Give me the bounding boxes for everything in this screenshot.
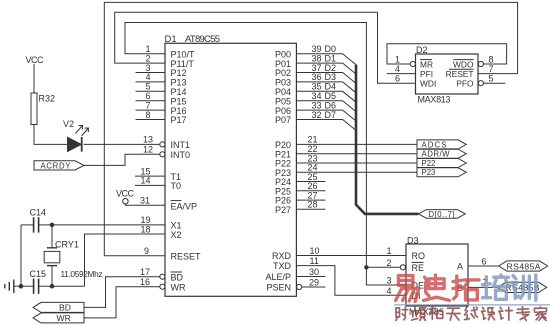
D1 left pin numbers	[140, 44, 153, 287]
junction node X2 leg	[50, 284, 55, 289]
svg-text:EA/VP: EA/VP	[171, 201, 198, 211]
svg-text:14: 14	[140, 176, 150, 186]
junction RE/DE node	[364, 265, 368, 269]
svg-text:6: 6	[395, 74, 400, 84]
svg-text:WR: WR	[171, 282, 186, 292]
wire TXD to DI	[296, 266, 406, 296]
wire net RE/DE (P1.0 to MAX485)	[125, 23, 406, 286]
watermark char pin (dark red)	[412, 307, 426, 320]
watchdog D2 MAX813 body	[416, 54, 479, 94]
svg-text:RESET: RESET	[446, 69, 474, 79]
svg-text:18: 18	[140, 224, 150, 234]
svg-text:RE: RE	[412, 263, 425, 273]
svg-text:ADR/W: ADR/W	[422, 150, 451, 159]
P2 port wires pins 21-24	[296, 144, 417, 172]
P0 data bus wires D0-D7	[296, 54, 356, 131]
svg-text:X2: X2	[171, 230, 182, 240]
D2 pin numbers	[395, 54, 494, 83]
svg-text:D1: D1	[165, 34, 177, 45]
wire net RESET (MAX813 pin7 to AT89C55 pin9)	[104, 2, 517, 255]
svg-text:D2: D2	[416, 45, 428, 55]
watermark char di (red)	[424, 275, 450, 300]
bus D[0..7] thick line	[356, 65, 419, 214]
D1 left pin names	[171, 49, 202, 292]
wire net WDI (P1.1 to MAX813 pin6)	[115, 12, 416, 83]
resistor R32	[31, 93, 37, 125]
svg-text:17: 17	[140, 267, 150, 277]
svg-text:P07: P07	[275, 115, 291, 125]
overline WDO	[454, 59, 474, 61]
transceiver D3 MAX485 body	[406, 244, 468, 306]
svg-text:D7: D7	[325, 110, 337, 120]
svg-text:CRY1: CRY1	[55, 239, 79, 249]
net labels D0-D7	[325, 44, 337, 120]
watermark char yi (red)	[396, 276, 419, 302]
flag ADR/W	[417, 149, 466, 158]
D1 left pin stubs	[135, 73, 165, 186]
watermark char xian (dark red)	[465, 307, 478, 320]
svg-text:P17: P17	[171, 115, 187, 125]
svg-text:11.0592Mhz: 11.0592Mhz	[61, 269, 103, 279]
flag ADCS	[417, 140, 466, 149]
svg-text:T0: T0	[171, 181, 182, 191]
svg-text:29: 29	[309, 278, 319, 288]
flag RS485B	[498, 282, 547, 292]
VCC port circle	[123, 199, 128, 204]
LED V2 emission arrows	[76, 126, 89, 137]
svg-text:11: 11	[310, 256, 319, 266]
svg-text:PFO: PFO	[456, 79, 474, 89]
svg-text:V2: V2	[63, 119, 74, 129]
svg-text:MAX813: MAX813	[418, 95, 451, 105]
crystal CRY1	[44, 225, 60, 286]
watermark char pei (blue)	[483, 275, 510, 299]
LED V2 diode	[68, 137, 82, 152]
wire crystal bottom to X2 riser	[52, 285, 85, 287]
svg-text:RS485A: RS485A	[507, 261, 541, 271]
svg-text:WDO: WDO	[453, 59, 474, 69]
svg-text:INT0: INT0	[171, 150, 191, 160]
D3 right pin numbers	[482, 256, 488, 287]
svg-text:RESET: RESET	[171, 251, 202, 261]
wire VCC to EA/VP pin31	[125, 204, 165, 205]
D1 right pin numbers 39-32	[312, 44, 322, 120]
D1/D3 pin numbers bottom	[309, 246, 392, 296]
svg-text:BD: BD	[59, 303, 71, 313]
svg-text:RO: RO	[412, 251, 426, 261]
svg-text:R32: R32	[39, 94, 56, 104]
svg-text:ACRDY: ACRDY	[41, 161, 72, 170]
svg-text:WDI: WDI	[420, 79, 436, 89]
svg-text:7: 7	[489, 64, 494, 74]
svg-text:30: 30	[309, 267, 319, 277]
pin stub ALE/P pin30	[296, 276, 325, 278]
wire BD pin17 to flag	[84, 277, 160, 308]
svg-text:1: 1	[395, 54, 400, 64]
junction node ground leg	[19, 284, 24, 289]
watermark char tuo (red)	[453, 276, 479, 300]
watermark underline	[394, 304, 550, 306]
flag WR	[33, 313, 84, 323]
watermark char she (dark red)	[396, 307, 408, 320]
pin stub RESET pin7 (to net)	[478, 73, 518, 75]
svg-text:3: 3	[387, 276, 392, 286]
svg-text:MR: MR	[420, 59, 433, 69]
svg-text:PSEN: PSEN	[266, 283, 291, 293]
D3 pin names	[412, 251, 464, 301]
svg-text:1: 1	[387, 246, 392, 256]
wire INT0 to ACRDY	[84, 154, 160, 165]
watermark char xun (blue)	[512, 275, 536, 300]
wire A to RS485A flag	[468, 265, 499, 267]
ground	[5, 280, 21, 294]
wire R32 to LED	[34, 125, 68, 145]
svg-text:8: 8	[489, 54, 494, 64]
svg-text:PFI: PFI	[420, 69, 433, 79]
capacitor C15	[21, 279, 52, 294]
svg-text:10: 10	[310, 246, 320, 256]
flag P23	[417, 168, 466, 177]
svg-text:P27: P27	[275, 205, 291, 215]
P2 port stubs pins 25-28	[296, 182, 325, 210]
flag RS485A	[499, 261, 548, 271]
D1 right pin numbers 21-28	[308, 135, 318, 210]
flag P22	[417, 159, 466, 168]
svg-text:AT89C55: AT89C55	[185, 34, 220, 45]
svg-text:C14: C14	[30, 208, 47, 218]
wire VCC to R32	[33, 64, 35, 93]
pin circles on D1 (13,12,17,16,29)	[160, 142, 302, 290]
svg-text:C15: C15	[30, 269, 47, 279]
pin bubble MR	[410, 61, 415, 66]
svg-text:INT1: INT1	[171, 140, 191, 150]
watermark char she2 (dark red)	[482, 307, 495, 319]
svg-text:TXD: TXD	[273, 261, 292, 271]
flag BD	[33, 302, 84, 312]
svg-text:32: 32	[312, 110, 322, 120]
wire LED to INT1	[84, 143, 160, 145]
capacitor C14	[21, 217, 52, 232]
pin bubble WDO	[478, 61, 483, 66]
IC D1 AT89C55 body	[165, 43, 296, 296]
svg-text:2: 2	[387, 258, 392, 268]
D2 pin names	[420, 59, 474, 88]
wire RXD to RO	[296, 255, 406, 257]
pin bubble RE	[400, 265, 405, 270]
svg-text:VCC: VCC	[26, 55, 45, 65]
pin bubble PFO	[478, 81, 483, 86]
wire MR loop to WDO	[387, 44, 507, 64]
svg-text:31: 31	[140, 196, 150, 206]
watermark char zhuan (dark red)	[517, 307, 530, 321]
svg-text:P23: P23	[422, 168, 436, 177]
svg-text:ALE/P: ALE/P	[265, 272, 291, 282]
svg-text:WR: WR	[57, 313, 71, 323]
svg-text:A: A	[457, 262, 463, 272]
svg-text:P22: P22	[422, 159, 436, 168]
svg-text:BD: BD	[171, 272, 184, 282]
wire WR pin16 to flag	[84, 287, 160, 318]
wire RE branch	[366, 266, 400, 268]
watermark char ji (dark red)	[499, 307, 512, 320]
svg-text:9: 9	[144, 246, 149, 256]
svg-text:6: 6	[482, 256, 487, 266]
pin stub PFI pin4	[387, 73, 416, 75]
wire X2	[85, 234, 166, 286]
svg-text:VCC: VCC	[116, 188, 135, 198]
svg-text:13: 13	[143, 135, 153, 145]
overline RESET(D2)	[449, 68, 474, 70]
svg-text:5: 5	[489, 74, 494, 84]
overline RE(D3)	[412, 261, 424, 263]
svg-text:4: 4	[387, 286, 392, 296]
svg-text:ADCS: ADCS	[422, 140, 447, 149]
watermark char tian (dark red)	[447, 308, 460, 320]
wire C14/C15 common leg	[20, 225, 22, 286]
svg-text:RXD: RXD	[272, 251, 292, 261]
svg-text:12: 12	[143, 144, 153, 154]
flag ACRDY	[34, 161, 84, 171]
D1 reference labels	[165, 34, 221, 45]
svg-text:16: 16	[140, 277, 150, 287]
overline BD	[171, 271, 183, 273]
wire X1 row	[52, 224, 165, 226]
bus flag D[0..7]	[419, 210, 466, 219]
pin stub PFO pin5	[484, 82, 506, 84]
svg-text:8: 8	[145, 110, 150, 120]
watermark char jia (dark red)	[534, 307, 546, 321]
pin stub PSEN pin29	[302, 286, 326, 288]
overline EA	[171, 200, 182, 202]
wire B to RS485B flag	[468, 286, 498, 288]
D1 right pin names	[265, 49, 291, 292]
overline MR	[420, 59, 432, 61]
svg-text:D[0..7]: D[0..7]	[429, 210, 455, 219]
junction node X1	[50, 223, 55, 228]
watermark char he (dark red)	[429, 307, 442, 320]
svg-text:D3: D3	[407, 236, 419, 246]
svg-text:4: 4	[395, 64, 400, 74]
svg-text:28: 28	[308, 200, 318, 210]
